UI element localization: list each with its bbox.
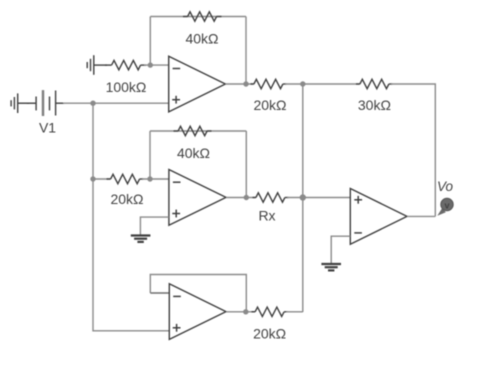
wire U2 output (226, 197, 256, 199)
wire U3 feedback rail (150, 275, 246, 312)
wire U3 minus stub (150, 292, 169, 294)
wire U1 feedback right vertical (245, 17, 247, 85)
ground under U4 minus (321, 264, 341, 270)
wire V1 to op-amp U1 plus input (63, 102, 169, 104)
svg-text:Rx: Rx (258, 208, 275, 224)
wire U2 feedback top rail (150, 130, 246, 132)
op-amp U2 (169, 170, 226, 226)
wire 30k to right vertical down to U4 output (391, 84, 435, 216)
wire U1 feedback top rail (150, 16, 246, 18)
node U2 minus junction (147, 176, 152, 181)
node U1 output junction (243, 81, 248, 86)
node A junction on V1 line (90, 101, 95, 106)
ground for 100k resistor (87, 55, 107, 75)
node between 20k and 30k (300, 81, 305, 86)
node U3 output junction (243, 309, 248, 314)
resistor 40k U2 feedback (174, 126, 212, 135)
svg-text:40kΩ: 40kΩ (177, 145, 210, 161)
ground left of V1 (11, 93, 29, 113)
op-amp U3 (169, 284, 226, 340)
wire ground to V1 (27, 102, 36, 104)
wire U2 feedback left vertical (149, 131, 151, 179)
resistor 20k U2 input (107, 174, 144, 183)
wire summing vertical (302, 84, 304, 312)
svg-text:40kΩ: 40kΩ (185, 31, 218, 47)
wire U2 feedback right vertical (245, 131, 247, 198)
resistor 20k after U3 (252, 307, 288, 316)
wire 100k to U1 minus input (144, 64, 169, 66)
svg-text:30kΩ: 30kΩ (358, 97, 391, 113)
op-amp U4 (350, 189, 407, 245)
wire bus to 20k U2 (93, 178, 111, 180)
wire U4 minus to ground (331, 236, 350, 264)
wire U3 output (226, 311, 255, 313)
node U2 input junction on bus (90, 176, 95, 181)
resistor 20k after U1 (251, 79, 287, 88)
svg-text:V1: V1 (39, 120, 56, 136)
wire main bus vertical (93, 103, 169, 331)
resistor 30k (356, 79, 393, 88)
resistor 100k (105, 60, 146, 69)
ground under U2 plus (131, 236, 151, 242)
wire U4 output (407, 215, 435, 217)
svg-text:100kΩ: 100kΩ (106, 79, 147, 95)
op-amp U1 (169, 56, 226, 112)
node U1 minus junction (148, 62, 153, 67)
svg-text:Vo: Vo (437, 179, 454, 194)
wire 20k to node (285, 83, 360, 85)
resistor 40k U1 feedback (183, 12, 222, 21)
wire U1 feedback left vertical (149, 17, 151, 66)
voltmeter probe V (437, 198, 453, 215)
svg-text:20kΩ: 20kΩ (110, 191, 143, 207)
svg-text:v: v (444, 200, 449, 210)
svg-text:20kΩ: 20kΩ (253, 97, 286, 113)
wire U2 plus to ground (140, 217, 169, 235)
battery V1 (36, 90, 64, 116)
wire U1 output (225, 83, 253, 85)
wire Rx to summing junction and U4 plus (287, 197, 350, 199)
node summing junction (300, 194, 306, 200)
wire 20k to U2 minus input (142, 178, 169, 180)
wire 20k bottom up to summing vertical (286, 311, 303, 313)
svg-text:20kΩ: 20kΩ (253, 326, 286, 342)
resistor Rx (253, 193, 289, 202)
node U2 output junction (244, 195, 249, 200)
